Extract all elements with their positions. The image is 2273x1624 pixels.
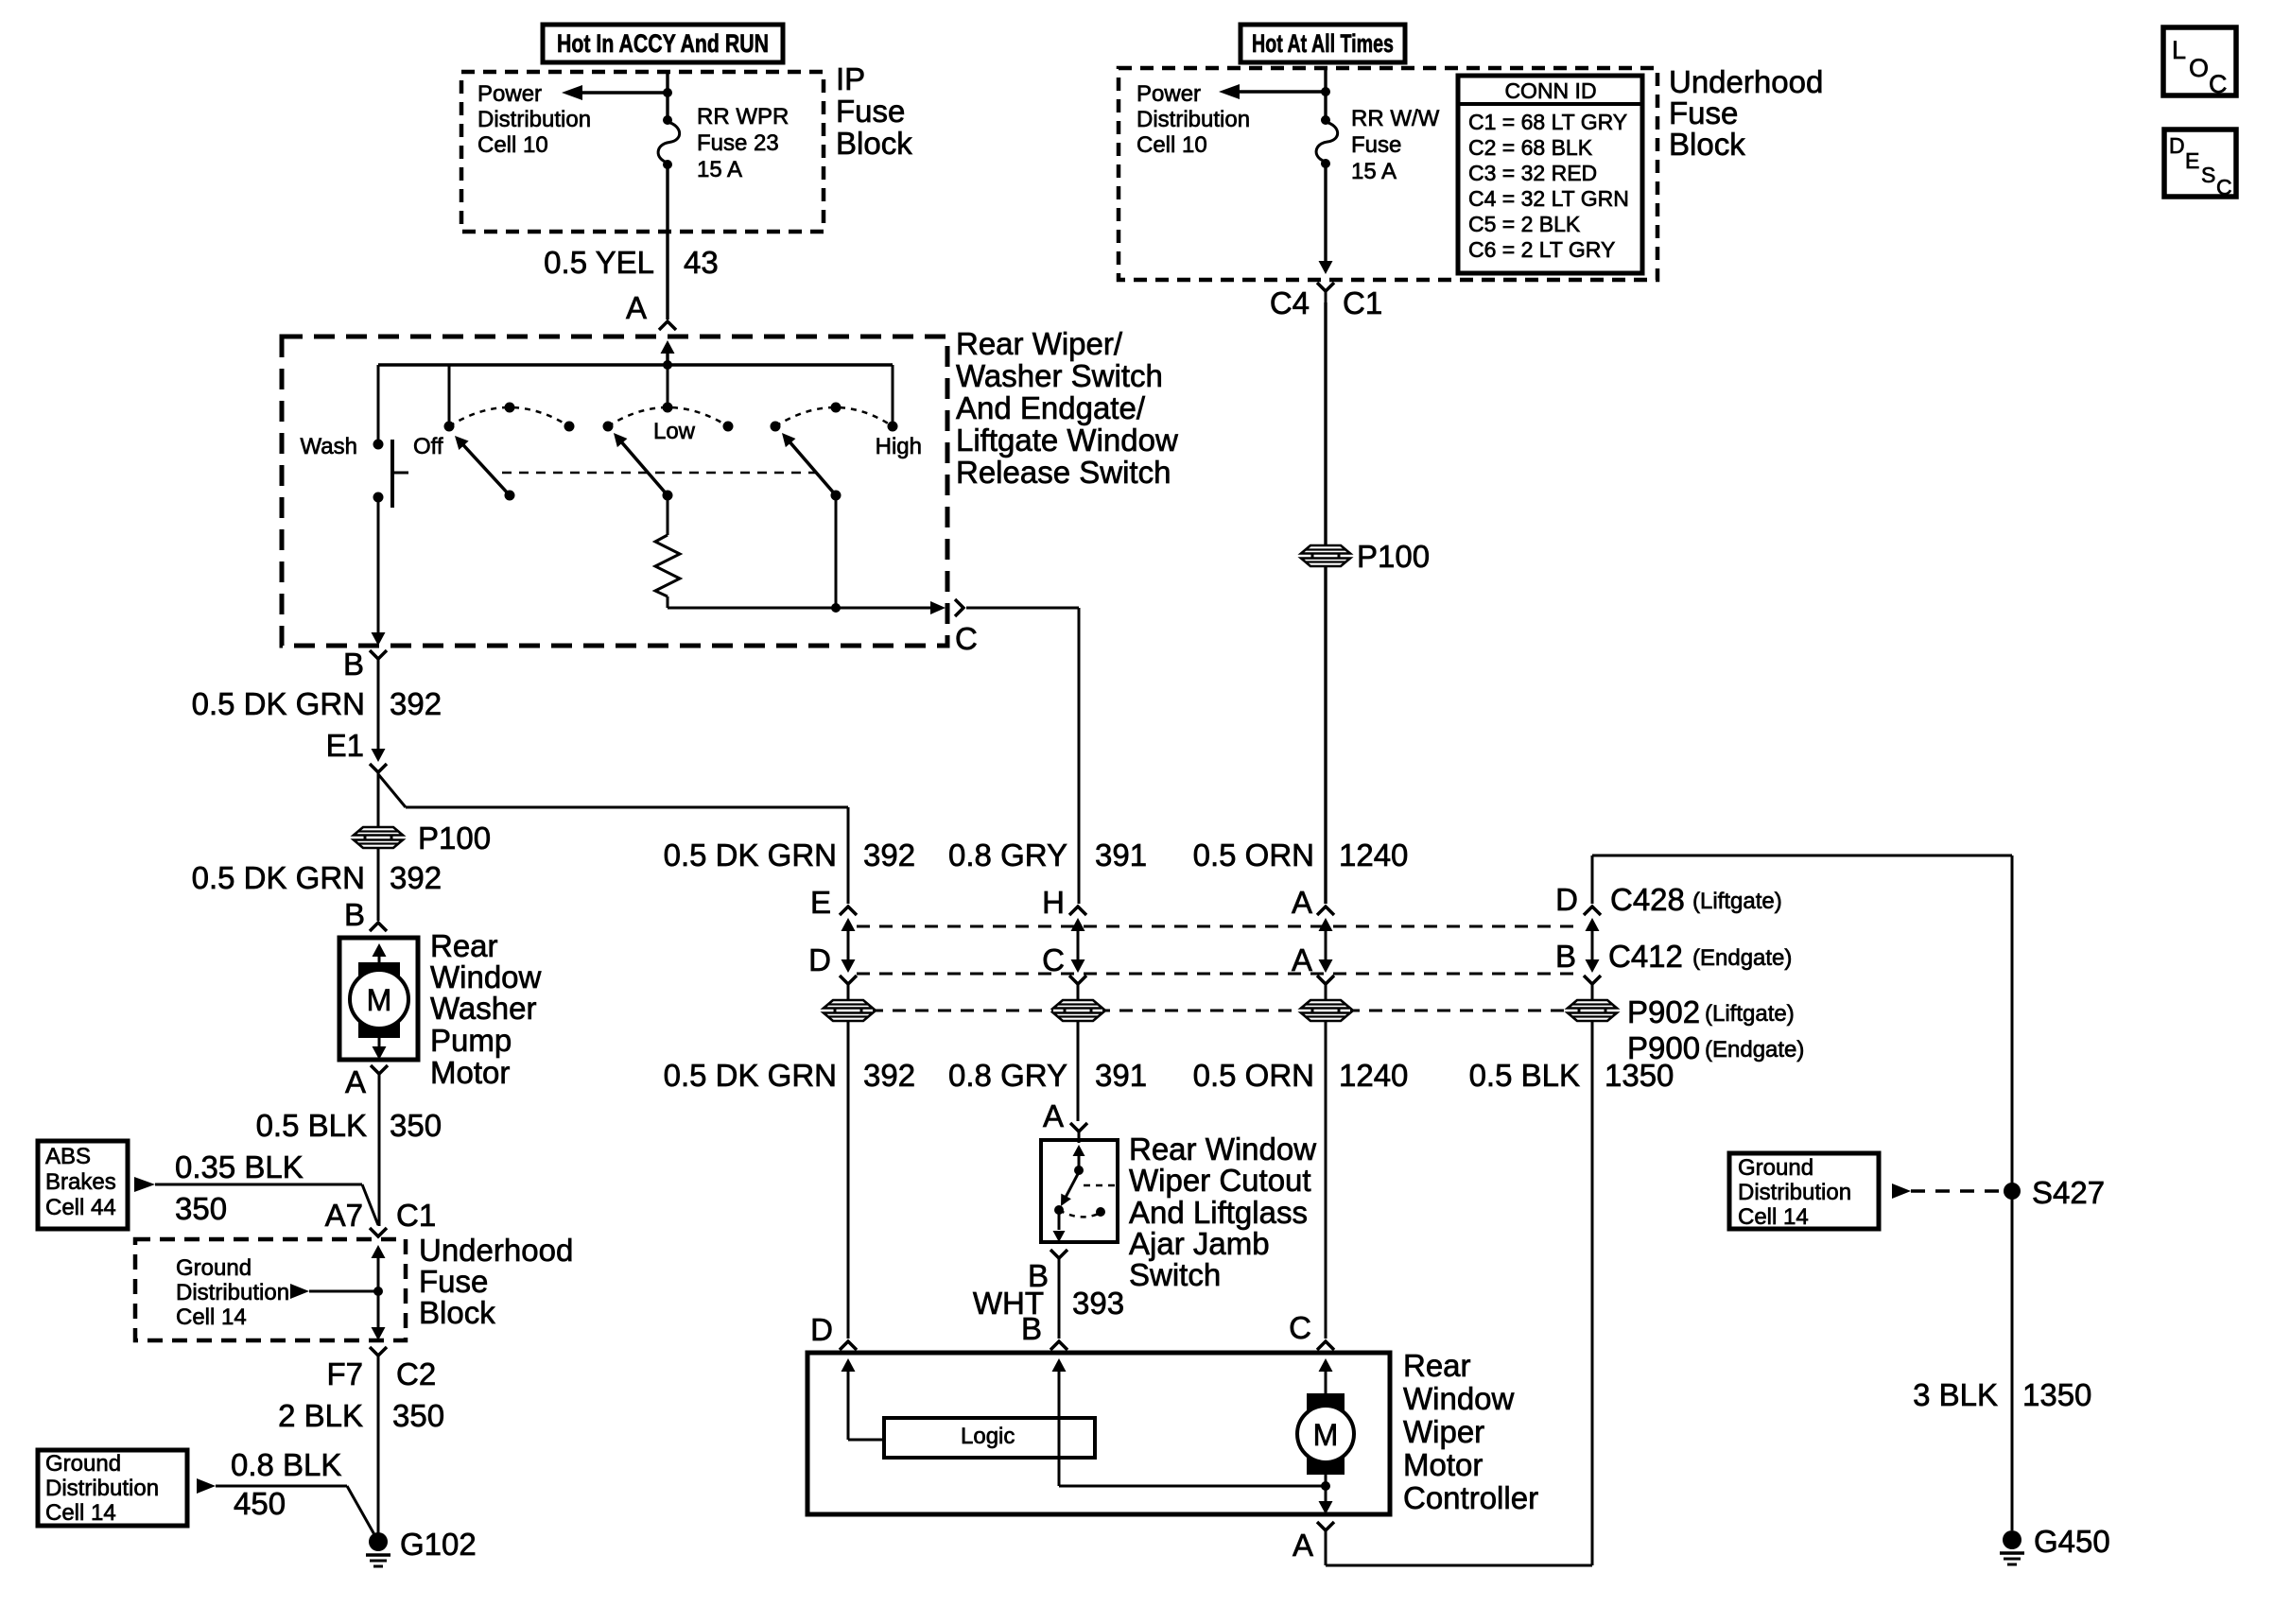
- svg-text:C4: C4: [1270, 285, 1310, 320]
- svg-text:0.5 DK GRN: 0.5 DK GRN: [192, 860, 365, 895]
- svg-text:CONN ID: CONN ID: [1504, 78, 1596, 103]
- svg-text:Fuse: Fuse: [419, 1264, 488, 1299]
- svg-text:G102: G102: [400, 1527, 477, 1562]
- svg-text:C3 = 32 RED: C3 = 32 RED: [1468, 161, 1597, 185]
- svg-text:A: A: [345, 1064, 366, 1099]
- svg-text:(Endgate): (Endgate): [1692, 945, 1792, 971]
- svg-text:A: A: [1292, 942, 1312, 977]
- svg-text:Fuse: Fuse: [1351, 132, 1401, 158]
- svg-text:Cell 14: Cell 14: [176, 1304, 247, 1330]
- svg-text:Underhood: Underhood: [419, 1233, 573, 1268]
- svg-text:C: C: [1289, 1310, 1311, 1345]
- svg-text:Distribution: Distribution: [176, 1280, 289, 1305]
- svg-text:D: D: [810, 1312, 833, 1347]
- svg-text:B: B: [343, 647, 364, 682]
- svg-text:Wiper Cutout: Wiper Cutout: [1129, 1163, 1311, 1198]
- svg-text:O: O: [2189, 54, 2209, 82]
- svg-text:Low: Low: [653, 419, 696, 444]
- svg-text:Distribution: Distribution: [477, 107, 591, 132]
- svg-text:Ground: Ground: [176, 1255, 252, 1281]
- svg-text:Rear: Rear: [430, 928, 498, 963]
- svg-text:Window: Window: [1403, 1381, 1515, 1416]
- svg-text:(Liftgate): (Liftgate): [1705, 1001, 1795, 1027]
- svg-text:43: 43: [684, 245, 719, 280]
- svg-text:C4 = 32 LT GRN: C4 = 32 LT GRN: [1468, 186, 1629, 211]
- svg-text:Release Switch: Release Switch: [956, 455, 1171, 490]
- svg-text:C428: C428: [1610, 882, 1685, 917]
- svg-text:D: D: [808, 942, 831, 977]
- svg-text:C2: C2: [396, 1356, 436, 1391]
- svg-text:High: High: [876, 434, 922, 459]
- svg-text:F7: F7: [326, 1356, 363, 1391]
- svg-text:C6 = 2 LT GRY: C6 = 2 LT GRY: [1468, 237, 1615, 262]
- svg-text:Underhood: Underhood: [1669, 64, 1823, 99]
- svg-text:Distribution: Distribution: [45, 1476, 159, 1501]
- svg-text:Cell 10: Cell 10: [1136, 132, 1207, 158]
- svg-text:G450: G450: [2034, 1524, 2110, 1559]
- svg-text:C: C: [1042, 942, 1065, 977]
- svg-text:Distribution: Distribution: [1738, 1180, 1851, 1205]
- svg-text:350: 350: [390, 1108, 442, 1143]
- svg-text:Block: Block: [1669, 127, 1745, 162]
- svg-text:A: A: [626, 290, 647, 325]
- svg-text:RR WPR: RR WPR: [697, 104, 789, 130]
- svg-text:E1: E1: [326, 728, 364, 763]
- svg-text:M: M: [367, 983, 392, 1017]
- svg-text:Motor: Motor: [1403, 1447, 1483, 1482]
- svg-text:ABS: ABS: [45, 1144, 91, 1169]
- svg-text:1350: 1350: [2022, 1377, 2091, 1412]
- svg-text:P902: P902: [1627, 994, 1700, 1029]
- svg-text:M: M: [1313, 1418, 1339, 1452]
- svg-text:B: B: [1021, 1311, 1042, 1346]
- svg-text:Cell 14: Cell 14: [45, 1500, 116, 1526]
- svg-text:Power: Power: [477, 81, 542, 107]
- svg-text:Wiper: Wiper: [1403, 1414, 1484, 1449]
- svg-text:Brakes: Brakes: [45, 1169, 116, 1195]
- svg-text:C: C: [2216, 175, 2232, 199]
- svg-text:0.5 DK GRN: 0.5 DK GRN: [192, 686, 365, 721]
- svg-text:Rear: Rear: [1403, 1348, 1471, 1383]
- svg-text:(Endgate): (Endgate): [1705, 1037, 1804, 1063]
- svg-text:C: C: [2209, 70, 2228, 98]
- svg-text:S: S: [2201, 163, 2215, 187]
- svg-text:0.5 BLK: 0.5 BLK: [1469, 1058, 1580, 1093]
- svg-text:C1: C1: [1343, 285, 1382, 320]
- svg-text:Ground: Ground: [1738, 1155, 1813, 1181]
- svg-text:0.8 GRY: 0.8 GRY: [948, 1058, 1067, 1093]
- svg-text:Ground: Ground: [45, 1451, 121, 1477]
- svg-text:Distribution: Distribution: [1136, 107, 1250, 132]
- svg-text:0.5 BLK: 0.5 BLK: [256, 1108, 367, 1143]
- svg-text:L: L: [2172, 36, 2186, 64]
- svg-text:Window: Window: [430, 959, 542, 994]
- svg-text:A: A: [1293, 1528, 1313, 1563]
- svg-text:15 A: 15 A: [697, 157, 742, 182]
- svg-text:C: C: [955, 621, 978, 656]
- svg-text:392: 392: [863, 1058, 915, 1093]
- svg-text:1350: 1350: [1605, 1058, 1674, 1093]
- svg-text:Fuse: Fuse: [836, 94, 905, 129]
- svg-text:IP: IP: [836, 61, 865, 96]
- svg-text:Cell 14: Cell 14: [1738, 1204, 1809, 1230]
- svg-text:392: 392: [390, 860, 442, 895]
- svg-text:H: H: [1042, 885, 1065, 920]
- svg-text:393: 393: [1072, 1286, 1124, 1321]
- svg-text:3 BLK: 3 BLK: [1913, 1377, 1998, 1412]
- svg-text:C412: C412: [1608, 939, 1683, 974]
- svg-text:D: D: [1555, 882, 1578, 917]
- svg-text:Rear Wiper/: Rear Wiper/: [956, 326, 1123, 361]
- svg-text:15 A: 15 A: [1351, 159, 1397, 184]
- svg-text:And Liftglass: And Liftglass: [1129, 1195, 1308, 1230]
- svg-text:Wash: Wash: [301, 434, 357, 459]
- svg-text:350: 350: [175, 1191, 227, 1226]
- svg-text:Logic: Logic: [961, 1424, 1015, 1449]
- svg-text:Block: Block: [419, 1295, 495, 1330]
- svg-text:P100: P100: [418, 821, 491, 855]
- svg-text:(Liftgate): (Liftgate): [1692, 889, 1782, 914]
- svg-text:And Endgate/: And Endgate/: [956, 390, 1146, 425]
- svg-text:392: 392: [863, 838, 915, 872]
- svg-text:350: 350: [392, 1398, 444, 1433]
- svg-text:450: 450: [234, 1486, 286, 1521]
- svg-text:Switch: Switch: [1129, 1257, 1221, 1292]
- svg-text:Cell 44: Cell 44: [45, 1195, 116, 1220]
- svg-text:Power: Power: [1136, 81, 1201, 107]
- svg-text:C5 = 2 BLK: C5 = 2 BLK: [1468, 212, 1581, 236]
- svg-text:C2 = 68 BLK: C2 = 68 BLK: [1468, 135, 1593, 160]
- svg-text:C1: C1: [396, 1198, 436, 1233]
- svg-text:B: B: [1555, 939, 1576, 974]
- svg-text:392: 392: [390, 686, 442, 721]
- svg-text:0.5 ORN: 0.5 ORN: [1193, 838, 1314, 872]
- svg-text:0.8 BLK: 0.8 BLK: [231, 1447, 341, 1482]
- svg-text:A7: A7: [325, 1198, 363, 1233]
- svg-text:D: D: [2169, 133, 2185, 158]
- svg-text:A: A: [1292, 885, 1312, 920]
- svg-text:Motor: Motor: [430, 1055, 510, 1090]
- svg-text:C1 = 68 LT GRY: C1 = 68 LT GRY: [1468, 110, 1627, 134]
- svg-text:Ajar Jamb: Ajar Jamb: [1129, 1226, 1270, 1261]
- svg-text:Liftgate Window: Liftgate Window: [956, 423, 1178, 458]
- svg-text:0.35 BLK: 0.35 BLK: [175, 1149, 304, 1184]
- svg-text:Controller: Controller: [1403, 1480, 1538, 1515]
- svg-text:391: 391: [1095, 1058, 1147, 1093]
- svg-text:Fuse 23: Fuse 23: [697, 130, 779, 156]
- svg-text:B: B: [344, 897, 365, 932]
- svg-text:Off: Off: [413, 434, 443, 459]
- svg-text:P100: P100: [1357, 539, 1430, 574]
- svg-text:0.5 ORN: 0.5 ORN: [1193, 1058, 1314, 1093]
- svg-text:Hot In ACCY And RUN: Hot In ACCY And RUN: [557, 29, 769, 58]
- svg-text:0.5 YEL: 0.5 YEL: [544, 245, 654, 280]
- svg-text:1240: 1240: [1339, 1058, 1408, 1093]
- svg-text:RR W/W: RR W/W: [1351, 106, 1440, 131]
- svg-text:E: E: [2185, 148, 2199, 173]
- svg-text:Block: Block: [836, 126, 912, 161]
- svg-text:A: A: [1043, 1098, 1064, 1133]
- svg-text:Cell 10: Cell 10: [477, 132, 548, 158]
- svg-text:0.5 DK GRN: 0.5 DK GRN: [664, 1058, 837, 1093]
- svg-text:Pump: Pump: [430, 1023, 512, 1058]
- svg-text:2 BLK: 2 BLK: [278, 1398, 363, 1433]
- svg-text:E: E: [810, 885, 831, 920]
- svg-text:1240: 1240: [1339, 838, 1408, 872]
- svg-text:Washer Switch: Washer Switch: [956, 358, 1163, 393]
- svg-text:0.8 GRY: 0.8 GRY: [948, 838, 1067, 872]
- svg-text:S427: S427: [2032, 1175, 2105, 1210]
- svg-text:Washer: Washer: [430, 991, 536, 1026]
- svg-text:0.5 DK GRN: 0.5 DK GRN: [664, 838, 837, 872]
- svg-text:Hot At All Times: Hot At All Times: [1252, 29, 1394, 58]
- svg-text:391: 391: [1095, 838, 1147, 872]
- svg-text:Fuse: Fuse: [1669, 95, 1738, 130]
- svg-text:Rear Window: Rear Window: [1129, 1132, 1316, 1166]
